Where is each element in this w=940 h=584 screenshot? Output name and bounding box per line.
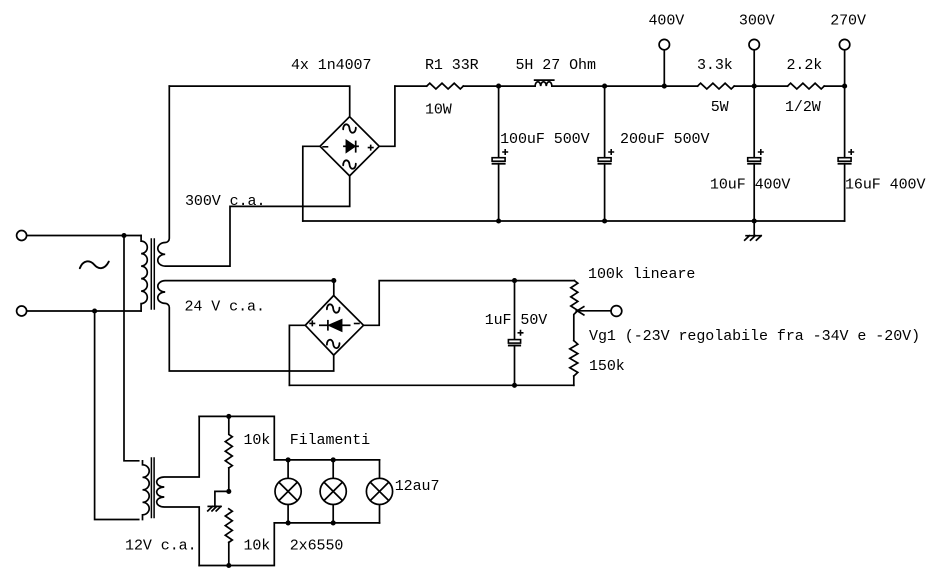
svg-text:300V c.a.: 300V c.a. (185, 193, 266, 210)
svg-text:10k: 10k (244, 538, 271, 555)
svg-text:150k: 150k (589, 358, 625, 375)
svg-text:3.3k: 3.3k (697, 57, 733, 74)
svg-text:200uF 500V: 200uF 500V (620, 131, 710, 148)
svg-text:16uF 400V: 16uF 400V (845, 177, 926, 194)
svg-text:2x6550: 2x6550 (290, 538, 344, 555)
svg-text:1uF 50V: 1uF 50V (485, 312, 548, 329)
svg-text:300V: 300V (739, 13, 775, 30)
svg-text:100k lineare: 100k lineare (588, 266, 695, 283)
svg-text:10W: 10W (425, 102, 452, 119)
svg-text:24 V c.a.: 24 V c.a. (185, 299, 266, 316)
svg-text:5H 27 Ohm: 5H 27 Ohm (516, 57, 597, 74)
svg-text:Filamenti: Filamenti (290, 432, 371, 449)
svg-text:400V: 400V (649, 13, 685, 30)
svg-text:12V c.a.: 12V c.a. (125, 538, 197, 555)
svg-text:5W: 5W (711, 99, 729, 116)
svg-text:10k: 10k (244, 432, 271, 449)
svg-text:4x 1n4007: 4x 1n4007 (291, 57, 372, 74)
svg-text:R1 33R: R1 33R (425, 57, 479, 74)
svg-text:1/2W: 1/2W (785, 99, 821, 116)
svg-text:10uF 400V: 10uF 400V (710, 177, 791, 194)
svg-text:Vg1 (-23V regolabile fra -34V: Vg1 (-23V regolabile fra -34V e -20V) (589, 328, 920, 345)
svg-text:2.2k: 2.2k (787, 57, 823, 74)
svg-text:100uF 500V: 100uF 500V (500, 131, 589, 148)
svg-text:12au7: 12au7 (395, 478, 440, 495)
svg-text:270V: 270V (830, 13, 866, 30)
